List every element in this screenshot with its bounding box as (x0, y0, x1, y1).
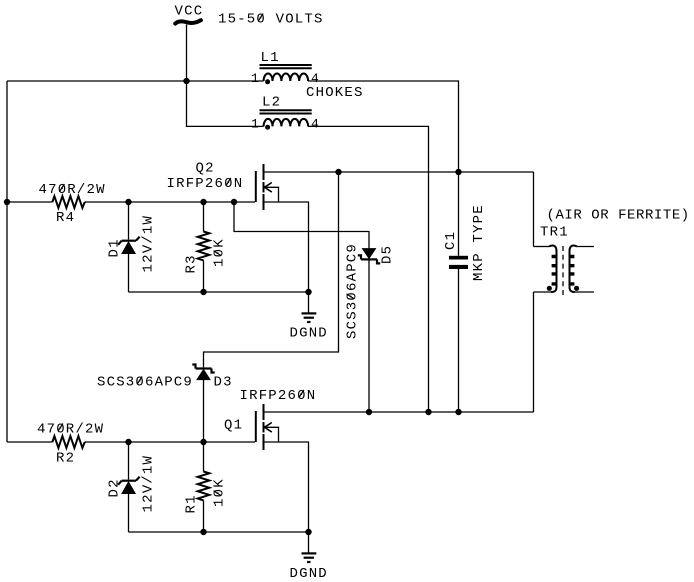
zener diode D2 (107, 442, 157, 532)
svg-text:Q2: Q2 (196, 161, 215, 177)
node Q2 drain / D3 branch (335, 169, 341, 175)
wire Q1 gate rail (7, 441, 255, 443)
diode D5 SCS306APC9 (345, 243, 396, 412)
svg-text:IRFP260N: IRFP260N (240, 388, 317, 404)
node left bus / R4 (4, 199, 10, 205)
svg-text:R4: R4 (56, 210, 75, 226)
svg-text:SCS306APC9: SCS306APC9 (97, 375, 193, 391)
secondary top pin wire (TR1) (577, 246, 594, 248)
svg-text:470R/2W: 470R/2W (39, 182, 106, 198)
wire Q2 drain to D3 (204, 172, 339, 367)
svg-text:MKP TYPE: MKP TYPE (471, 204, 487, 281)
svg-text:L1: L1 (261, 50, 280, 66)
svg-text:R2: R2 (56, 451, 75, 467)
svg-text:D3: D3 (214, 375, 233, 391)
wire VCC stem (186, 25, 188, 82)
svg-text:D1: D1 (107, 238, 123, 257)
svg-text:D5: D5 (380, 245, 396, 264)
wire left bus (6, 81, 8, 442)
svg-text:10K: 10K (212, 238, 228, 267)
svg-text:DGND: DGND (290, 566, 328, 582)
svg-text:IRFP260N: IRFP260N (167, 176, 244, 192)
svg-text:SCS306APC9: SCS306APC9 (345, 243, 361, 339)
zener diode D1 (107, 202, 157, 292)
slashed-zero marks (58, 14, 354, 496)
node R3 top (200, 199, 206, 205)
node D5 bottom (366, 409, 372, 415)
svg-text:1: 1 (251, 71, 260, 86)
svg-text:VCC: VCC (175, 4, 204, 20)
svg-text:L2: L2 (262, 95, 281, 111)
inductor L1 (251, 50, 320, 86)
wire Q2 section bottom rail (129, 291, 309, 293)
node R1 / D3 anode (200, 439, 206, 445)
svg-text:(AIR OR FERRITE): (AIR OR FERRITE) (547, 208, 690, 224)
svg-text:CHOKES: CHOKES (306, 85, 364, 101)
ground DGND (upper) (290, 292, 328, 342)
node Q2 gate junction (231, 199, 237, 205)
svg-text:Q1: Q1 (224, 418, 243, 434)
resistor R2 (37, 422, 104, 467)
svg-text:DGND: DGND (290, 326, 328, 342)
wire Q2 drain rail (265, 171, 534, 173)
node R3 bottom (200, 289, 206, 295)
polarity dot TR1 secondary (574, 286, 579, 291)
node D2 top (125, 439, 131, 445)
resistor R1 (184, 442, 228, 532)
core dashed line TR1 (562, 246, 564, 295)
wire Q1 source to ground column (265, 442, 309, 532)
svg-text:12V/1W: 12V/1W (141, 215, 157, 273)
node L1 / C1 top (455, 169, 461, 175)
capacitor C1 (443, 172, 487, 412)
transistor Q1 IRFP260N (256, 404, 279, 450)
transistor Q2 IRFP260N (256, 164, 279, 210)
power symbol VCC (175, 4, 204, 24)
svg-text:R1: R1 (184, 494, 200, 513)
wire Q2 gate to D5 (234, 202, 369, 249)
node Q1 source / ground (305, 529, 311, 535)
core bars L2 (260, 109, 312, 111)
node Q2 source / ground (305, 289, 311, 295)
secondary bottom pin wire (TR1) (575, 291, 594, 293)
node VCC junction (183, 78, 189, 84)
primary winding TR1 (549, 246, 557, 292)
inductor L2 (251, 95, 320, 132)
wire Q1 drain rail (265, 411, 534, 413)
wire top rail from left bus to L1 pin 1 (7, 80, 264, 82)
primary bottom pin wire (TR1) (534, 291, 552, 293)
primary top pin wire (TR1) (534, 246, 550, 248)
ground DGND (lower) (290, 532, 328, 582)
svg-text:15-50 VOLTS: 15-50 VOLTS (218, 12, 324, 28)
node D1 top (125, 199, 131, 205)
svg-text:1: 1 (251, 116, 260, 131)
wire Q1 section bottom rail (129, 531, 309, 533)
wire Q2 gate rail (7, 201, 255, 203)
core bars L1 (260, 64, 312, 66)
wire L2 to tank bottom rail (308, 126, 428, 412)
svg-text:4: 4 (311, 116, 320, 131)
polarity dot L1 (265, 79, 270, 84)
node C1 bottom (455, 409, 461, 415)
transformer TR1 (534, 246, 595, 295)
wire L1 to tank top rail (308, 81, 458, 172)
wire VCC drop to L2 (187, 81, 264, 126)
node L2 bottom (425, 409, 431, 415)
wire Q2 source to ground column (265, 202, 309, 292)
polarity dot TR1 primary (547, 286, 552, 291)
polarity dot L2 (265, 125, 270, 130)
svg-text:TR1: TR1 (540, 225, 569, 241)
resistor body R2 (52, 436, 84, 448)
resistor R4 (39, 182, 106, 226)
secondary winding TR1 (570, 246, 578, 292)
wire tank right bus (533, 172, 535, 412)
svg-text:C1: C1 (443, 231, 459, 250)
svg-text:D2: D2 (107, 478, 123, 497)
svg-text:12V/1W: 12V/1W (141, 455, 157, 513)
svg-text:R3: R3 (184, 254, 200, 273)
schottky diode D3 (192, 365, 232, 443)
svg-text:10K: 10K (212, 478, 228, 507)
node R1 bottom (200, 529, 206, 535)
resistor R3 (184, 202, 228, 292)
resistor body R4 (52, 196, 84, 208)
svg-text:4: 4 (311, 71, 320, 86)
